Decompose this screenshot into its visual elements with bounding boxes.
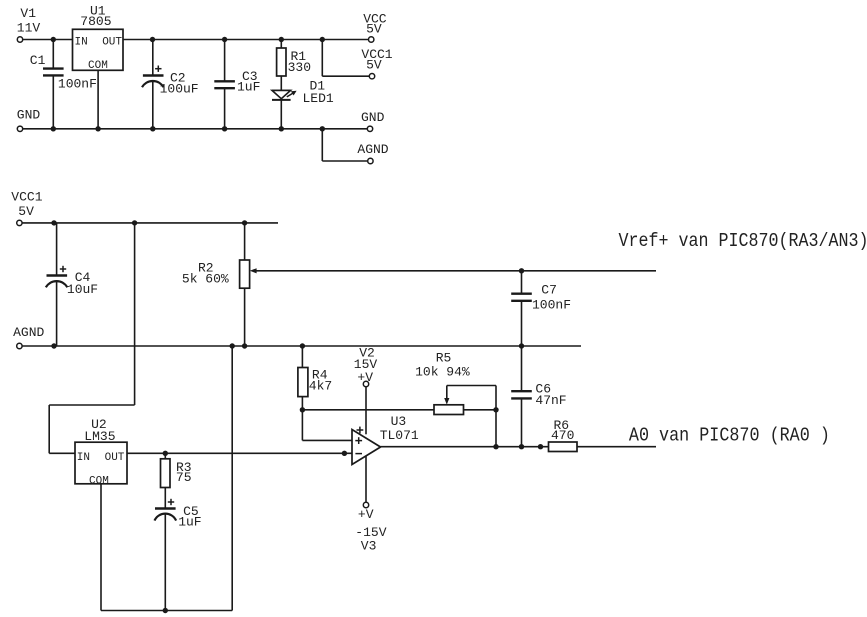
wire AGND rail [22, 345, 581, 347]
node C1/top-rail junction [51, 37, 56, 42]
svg-text:470: 470 [551, 428, 574, 443]
terminal V2 [354, 346, 378, 387]
resistor R6 [549, 418, 578, 452]
node C7/vref junction [519, 268, 524, 273]
svg-text:5V: 5V [366, 58, 382, 73]
svg-text:V1: V1 [20, 6, 36, 21]
terminal VCC1 lower [11, 189, 42, 225]
svg-text:330: 330 [288, 60, 311, 75]
wire R2 wiper to Vref [256, 270, 657, 272]
svg-text:VCC1: VCC1 [11, 189, 42, 204]
resistor R4 [298, 346, 332, 410]
node C3/gnd junction [222, 126, 227, 131]
svg-text:IN: IN [77, 452, 90, 464]
node C6/output junction [519, 444, 524, 449]
svg-text:+V: +V [358, 507, 374, 522]
regulator U1 7805 [73, 4, 124, 72]
svg-text:11V: 11V [17, 21, 41, 36]
node R5-right/feedback junction [493, 407, 498, 412]
wire bottom return rail [101, 610, 232, 612]
terminal AGND lower [13, 325, 44, 349]
potentiometer R2 [182, 223, 257, 346]
net label Vref+ van PIC870(RA3/AN3) [619, 230, 867, 252]
svg-text:OUT: OUT [102, 37, 122, 49]
node C4/vcc1 junction [51, 220, 56, 225]
wire U1 COM to GND rail [97, 71, 99, 129]
resistor R3 [161, 453, 192, 508]
svg-text:C7: C7 [541, 282, 557, 297]
node output stub junction [538, 444, 543, 449]
svg-text:1uF: 1uF [178, 515, 201, 530]
node AGND-branch junction [320, 126, 325, 131]
node C2/top-rail junction [150, 37, 155, 42]
wire VCC1 branch [322, 40, 369, 77]
node R1/top-rail junction [279, 37, 284, 42]
wire U2 OUT to opamp inverting input [127, 452, 352, 454]
LED D1 [272, 78, 334, 128]
svg-text:Vref+ van PIC870(RA3/AN3): Vref+ van PIC870(RA3/AN3) [619, 230, 867, 252]
svg-text:GND: GND [17, 108, 41, 123]
capacitor C2 [142, 40, 199, 129]
terminal VCC [363, 12, 387, 43]
svg-text:47nF: 47nF [535, 393, 566, 408]
node R2/vcc1 junction [242, 220, 247, 225]
svg-text:4k7: 4k7 [309, 379, 332, 394]
svg-text:OUT: OUT [105, 452, 125, 464]
svg-text:AGND: AGND [357, 142, 388, 157]
svg-text:R5: R5 [436, 350, 452, 365]
svg-text:5k 60%: 5k 60% [182, 271, 229, 286]
svg-text:V3: V3 [361, 539, 377, 554]
node R4/R5 junction [300, 407, 305, 412]
wire V2 to opamp V+ [365, 387, 367, 434]
node D1/gnd junction [279, 126, 284, 131]
node inverting-input junction [342, 451, 347, 456]
node C1/gnd junction [51, 126, 56, 131]
svg-text:75: 75 [176, 470, 192, 485]
terminal V3 [355, 502, 386, 553]
capacitor C7 [511, 271, 571, 346]
wire GND rail [23, 128, 368, 130]
svg-text:C1: C1 [30, 53, 46, 68]
svg-text:LED1: LED1 [303, 91, 334, 106]
wire U2 COM down [100, 484, 102, 611]
wire VCC1 rail [22, 222, 278, 224]
op-amp U3 TL071 [352, 414, 419, 465]
svg-text:100nF: 100nF [532, 298, 571, 313]
svg-text:+V: +V [357, 370, 373, 385]
terminal GND right [361, 110, 385, 132]
node U2-return/agnd junction [230, 343, 235, 348]
wire U1 OUT rail to VCC [124, 39, 369, 41]
terminal GND left [17, 108, 41, 132]
potentiometer R5 [415, 350, 496, 446]
svg-text:5V: 5V [366, 22, 382, 37]
terminal V1 [17, 6, 41, 42]
svg-text:TL071: TL071 [380, 428, 419, 443]
wire opamp V- to V3 [365, 456, 367, 502]
svg-text:10uF: 10uF [67, 282, 98, 297]
wire V1 to U1 IN [23, 39, 73, 41]
wire to non-inverting input [302, 410, 352, 441]
terminal VCC1 [361, 47, 392, 79]
wire AGND branch [322, 129, 367, 161]
svg-text:IN: IN [75, 37, 88, 49]
resistor R1 [277, 40, 311, 91]
terminal AGND top-section [357, 142, 388, 164]
svg-text:5V: 5V [18, 204, 34, 219]
wire opamp output [381, 446, 549, 448]
node feedback/output junction [493, 444, 498, 449]
wire R4 to R5 [302, 409, 434, 411]
node C5/bottom junction [163, 608, 168, 613]
svg-text:AGND: AGND [13, 325, 44, 340]
node U2-supply junction [132, 220, 137, 225]
svg-text:A0 van PIC870 (RA0 ): A0 van PIC870 (RA0 ) [629, 425, 830, 447]
svg-text:1uF: 1uF [237, 79, 260, 94]
node C4/agnd junction [51, 343, 56, 348]
temperature sensor U2 LM35 [75, 417, 127, 487]
capacitor C6 [511, 346, 566, 447]
svg-text:U3: U3 [391, 414, 407, 429]
capacitor C3 [214, 40, 260, 129]
svg-text:LM35: LM35 [84, 429, 115, 444]
svg-text:10k 94%: 10k 94% [415, 365, 470, 380]
svg-text:100uF: 100uF [160, 82, 199, 97]
capacitor C5 [155, 499, 202, 611]
node R3/out junction [163, 451, 168, 456]
wire VCC1 to U2 IN [49, 223, 134, 453]
svg-text:COM: COM [89, 475, 109, 487]
svg-text:7805: 7805 [80, 14, 111, 29]
node R4/agnd junction [300, 343, 305, 348]
capacitor C1 [30, 40, 97, 129]
net label A0 van PIC870 (RA0 ) [629, 425, 830, 447]
node C6-C7/agnd junction [519, 343, 524, 348]
wire return up to AGND [231, 346, 233, 611]
wire R6 to A0 [577, 446, 656, 448]
node R2/agnd junction [242, 343, 247, 348]
svg-text:100nF: 100nF [58, 76, 97, 91]
node C3/top-rail junction [222, 37, 227, 42]
svg-text:GND: GND [361, 110, 385, 125]
node C2/gnd junction [150, 126, 155, 131]
node COM/gnd junction [95, 126, 100, 131]
svg-text:COM: COM [88, 60, 108, 72]
node VCC1-branch junction [320, 37, 325, 42]
capacitor C4 [46, 223, 98, 346]
